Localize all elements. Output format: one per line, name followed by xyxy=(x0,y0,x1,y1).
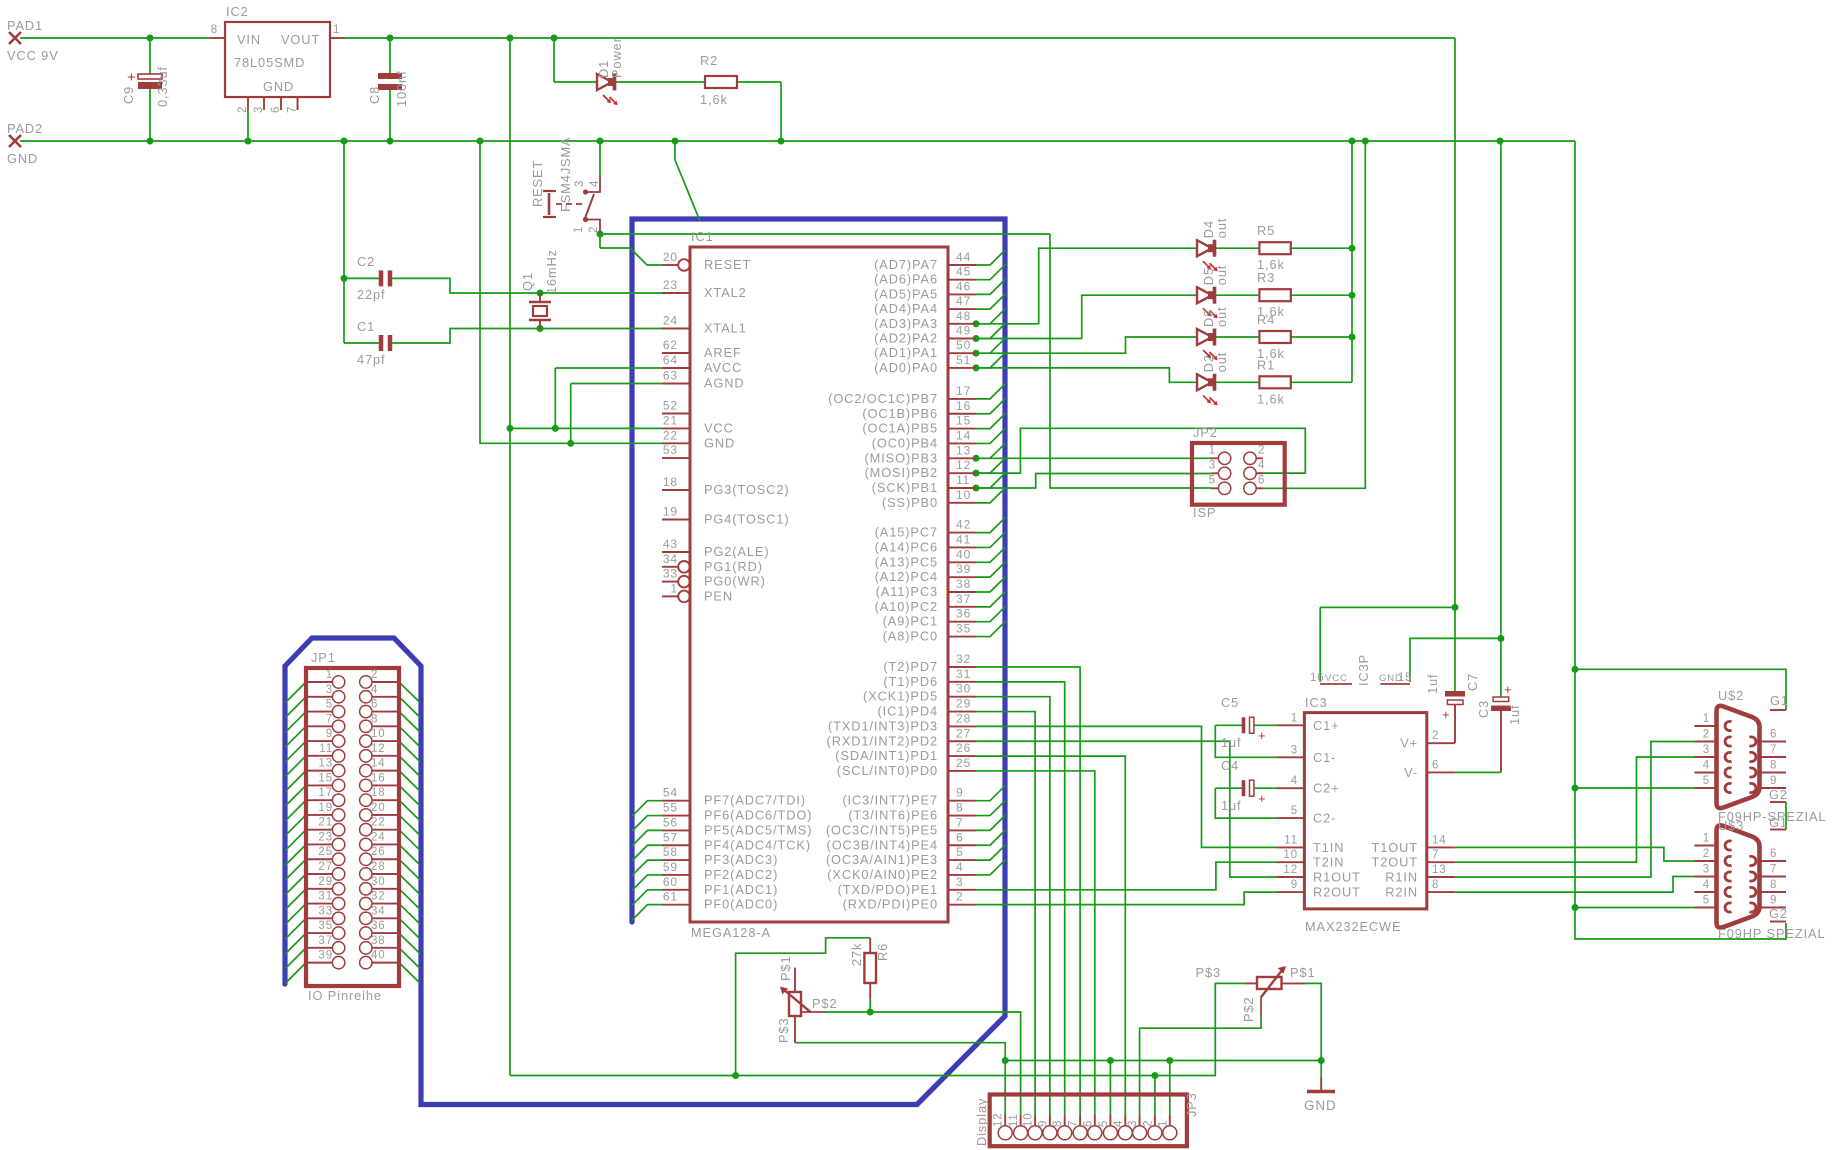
svg-text:6: 6 xyxy=(1770,729,1777,741)
svg-text:MAX232ECWE: MAX232ECWE xyxy=(1305,919,1401,934)
svg-text:Power: Power xyxy=(609,37,624,78)
svg-text:13: 13 xyxy=(956,443,971,457)
svg-text:GND: GND xyxy=(7,151,38,166)
svg-text:P$2: P$2 xyxy=(812,996,837,1011)
svg-text:(AD5)PA5: (AD5)PA5 xyxy=(874,286,938,301)
svg-text:G1: G1 xyxy=(1770,693,1789,708)
svg-text:6: 6 xyxy=(1432,759,1439,771)
svg-text:34: 34 xyxy=(371,905,386,917)
svg-text:15: 15 xyxy=(318,772,333,784)
svg-text:(MISO)PB3: (MISO)PB3 xyxy=(864,450,938,465)
svg-text:21: 21 xyxy=(663,413,678,427)
svg-text:(SCK)PB1: (SCK)PB1 xyxy=(872,480,938,495)
svg-text:GND: GND xyxy=(263,79,294,94)
svg-text:(SS)PB0: (SS)PB0 xyxy=(882,495,938,510)
svg-text:PF1(ADC1): PF1(ADC1) xyxy=(704,882,778,897)
svg-text:4: 4 xyxy=(1703,879,1710,891)
svg-text:(XCK1)PD5: (XCK1)PD5 xyxy=(863,689,938,704)
svg-text:C3: C3 xyxy=(1476,700,1491,718)
svg-text:7: 7 xyxy=(287,106,299,113)
svg-text:41: 41 xyxy=(956,532,971,546)
svg-text:(A13)PC5: (A13)PC5 xyxy=(875,554,938,569)
svg-text:(XCK0/AIN0)PE2: (XCK0/AIN0)PE2 xyxy=(827,867,938,882)
svg-text:T1OUT: T1OUT xyxy=(1372,840,1418,855)
svg-text:3: 3 xyxy=(1291,744,1298,756)
svg-text:4: 4 xyxy=(371,684,378,696)
svg-text:T1IN: T1IN xyxy=(1313,840,1344,855)
svg-text:21: 21 xyxy=(318,817,333,829)
svg-text:(OC1B)PB6: (OC1B)PB6 xyxy=(862,406,938,421)
svg-text:IC3: IC3 xyxy=(1305,695,1328,710)
svg-text:46: 46 xyxy=(956,279,971,293)
svg-text:38: 38 xyxy=(371,935,386,947)
svg-text:14: 14 xyxy=(956,428,971,442)
svg-text:IC3P: IC3P xyxy=(1356,654,1371,686)
svg-text:16: 16 xyxy=(1310,672,1325,684)
svg-text:37: 37 xyxy=(318,935,333,947)
svg-text:4: 4 xyxy=(589,180,601,187)
svg-text:(TXD/PDO)PE1: (TXD/PDO)PE1 xyxy=(838,882,938,897)
svg-text:10: 10 xyxy=(1023,1112,1035,1127)
svg-text:28: 28 xyxy=(371,861,386,873)
svg-text:32: 32 xyxy=(371,891,386,903)
svg-text:8: 8 xyxy=(1770,760,1777,772)
svg-text:(AD0)PA0: (AD0)PA0 xyxy=(874,360,938,375)
svg-text:17: 17 xyxy=(956,384,971,398)
svg-text:R2IN: R2IN xyxy=(1385,885,1418,900)
svg-text:18: 18 xyxy=(663,475,678,489)
svg-text:50: 50 xyxy=(956,338,971,352)
svg-text:25: 25 xyxy=(956,756,971,770)
svg-text:2: 2 xyxy=(237,106,249,113)
svg-text:1uf: 1uf xyxy=(1507,705,1522,726)
svg-text:(AD3)PA3: (AD3)PA3 xyxy=(874,316,938,331)
svg-text:24: 24 xyxy=(371,831,386,843)
svg-text:R1IN: R1IN xyxy=(1385,870,1418,885)
svg-text:C4: C4 xyxy=(1221,758,1239,773)
svg-text:9: 9 xyxy=(1770,775,1777,787)
svg-text:24: 24 xyxy=(663,314,678,328)
svg-text:12: 12 xyxy=(956,458,971,472)
svg-text:RESET: RESET xyxy=(704,257,751,272)
svg-text:PG4(TOSC1): PG4(TOSC1) xyxy=(704,512,790,527)
svg-text:XTAL2: XTAL2 xyxy=(704,285,747,300)
svg-text:1: 1 xyxy=(670,581,678,595)
svg-text:5: 5 xyxy=(1209,474,1216,486)
svg-text:C7: C7 xyxy=(1465,673,1480,691)
svg-text:out: out xyxy=(1214,307,1229,328)
svg-text:49: 49 xyxy=(956,324,971,338)
svg-text:C1-: C1- xyxy=(1313,750,1336,765)
svg-text:7: 7 xyxy=(1432,849,1439,861)
svg-text:P$1: P$1 xyxy=(778,956,793,981)
svg-text:1,6k: 1,6k xyxy=(700,92,728,107)
svg-text:59: 59 xyxy=(663,860,678,874)
svg-text:(OC2/OC1C)PB7: (OC2/OC1C)PB7 xyxy=(828,391,938,406)
svg-text:(RXD1/INT2)PD2: (RXD1/INT2)PD2 xyxy=(827,733,938,748)
svg-text:78L05SMD: 78L05SMD xyxy=(234,55,305,70)
svg-text:PF0(ADC0): PF0(ADC0) xyxy=(704,897,778,912)
svg-text:6: 6 xyxy=(1082,1120,1094,1127)
svg-text:5: 5 xyxy=(1291,805,1298,817)
svg-text:11: 11 xyxy=(319,743,333,755)
svg-text:10: 10 xyxy=(371,728,386,740)
svg-text:U$2: U$2 xyxy=(1718,688,1744,703)
svg-text:31: 31 xyxy=(956,667,971,681)
svg-text:(SDA/INT1)PD1: (SDA/INT1)PD1 xyxy=(835,748,938,763)
svg-text:1uf: 1uf xyxy=(1425,674,1440,695)
svg-text:2: 2 xyxy=(588,226,600,233)
svg-text:8: 8 xyxy=(211,24,218,36)
svg-text:VIN: VIN xyxy=(237,32,261,47)
svg-text:1: 1 xyxy=(1291,712,1298,724)
svg-text:15: 15 xyxy=(956,414,971,428)
svg-text:AREF: AREF xyxy=(704,345,742,360)
svg-text:2: 2 xyxy=(1142,1120,1154,1127)
svg-text:PF3(ADC3): PF3(ADC3) xyxy=(704,852,778,867)
svg-text:25: 25 xyxy=(318,846,333,858)
svg-text:IO Pinreihe: IO Pinreihe xyxy=(308,988,382,1003)
svg-text:PF4(ADC4/TCK): PF4(ADC4/TCK) xyxy=(704,837,811,852)
svg-text:P$2: P$2 xyxy=(1241,997,1256,1022)
svg-text:(IC3/INT7)PE7: (IC3/INT7)PE7 xyxy=(842,793,938,808)
svg-text:XTAL1: XTAL1 xyxy=(704,321,747,336)
svg-text:U$3: U$3 xyxy=(1718,818,1744,833)
svg-text:8: 8 xyxy=(1052,1120,1064,1127)
svg-text:JP1: JP1 xyxy=(311,650,336,665)
svg-text:27: 27 xyxy=(318,861,333,873)
svg-text:1,6k: 1,6k xyxy=(1257,391,1285,406)
svg-text:31: 31 xyxy=(318,891,333,903)
svg-text:22pf: 22pf xyxy=(357,287,386,302)
svg-text:16: 16 xyxy=(371,772,386,784)
svg-text:(T3/INT6)PE6: (T3/INT6)PE6 xyxy=(848,808,938,823)
svg-text:+: + xyxy=(1258,728,1267,743)
svg-text:9: 9 xyxy=(1291,879,1298,891)
svg-text:9: 9 xyxy=(326,728,333,740)
svg-text:61: 61 xyxy=(663,890,678,904)
svg-text:R2OUT: R2OUT xyxy=(1313,885,1361,900)
svg-text:(TXD1/INT3)PD3: (TXD1/INT3)PD3 xyxy=(828,718,938,733)
svg-text:62: 62 xyxy=(663,338,678,352)
svg-text:39: 39 xyxy=(318,950,333,962)
svg-text:5: 5 xyxy=(956,845,964,859)
svg-text:11: 11 xyxy=(1008,1113,1020,1127)
svg-text:(AD4)PA4: (AD4)PA4 xyxy=(874,301,938,316)
svg-text:20: 20 xyxy=(371,802,386,814)
svg-text:R3: R3 xyxy=(1257,270,1275,285)
svg-text:40: 40 xyxy=(371,950,386,962)
svg-text:PG3(TOSC2): PG3(TOSC2) xyxy=(704,482,790,497)
svg-text:P$1: P$1 xyxy=(1290,965,1315,980)
svg-text:(IC1)PD4: (IC1)PD4 xyxy=(877,704,938,719)
svg-text:3: 3 xyxy=(253,106,265,113)
svg-text:(A8)PC0: (A8)PC0 xyxy=(883,629,938,644)
svg-text:out: out xyxy=(1214,352,1229,373)
svg-text:(AD2)PA2: (AD2)PA2 xyxy=(874,331,938,346)
svg-text:out: out xyxy=(1214,265,1229,286)
svg-text:38: 38 xyxy=(956,577,971,591)
svg-text:39: 39 xyxy=(956,562,971,576)
svg-text:PEN: PEN xyxy=(704,588,733,603)
svg-text:(OC0)PB4: (OC0)PB4 xyxy=(872,435,938,450)
svg-text:4: 4 xyxy=(956,860,964,874)
svg-text:10: 10 xyxy=(1283,849,1298,861)
svg-text:3: 3 xyxy=(1703,744,1710,756)
svg-text:GND: GND xyxy=(704,435,735,450)
svg-text:1: 1 xyxy=(333,24,340,36)
svg-text:9: 9 xyxy=(956,786,964,800)
svg-text:8: 8 xyxy=(371,713,378,725)
svg-text:2: 2 xyxy=(1258,444,1265,456)
svg-text:FSM4JSMA: FSM4JSMA xyxy=(558,137,573,212)
svg-text:16: 16 xyxy=(956,399,971,413)
svg-text:(AD1)PA1: (AD1)PA1 xyxy=(874,345,938,360)
svg-text:7: 7 xyxy=(326,713,333,725)
svg-text:28: 28 xyxy=(956,711,971,725)
svg-text:3: 3 xyxy=(574,180,586,187)
svg-text:8: 8 xyxy=(956,801,964,815)
svg-text:5: 5 xyxy=(1703,895,1710,907)
svg-text:PAD1: PAD1 xyxy=(7,18,43,33)
svg-text:C8: C8 xyxy=(367,86,382,104)
svg-text:G1: G1 xyxy=(1769,815,1788,830)
svg-text:(T2)PD7: (T2)PD7 xyxy=(883,659,938,674)
svg-text:56: 56 xyxy=(663,815,678,829)
svg-text:1: 1 xyxy=(1703,833,1710,845)
svg-text:C1: C1 xyxy=(357,319,375,334)
svg-text:IC1: IC1 xyxy=(691,229,714,244)
svg-text:IC2: IC2 xyxy=(226,4,249,19)
svg-text:13: 13 xyxy=(318,758,333,770)
svg-text:C2+: C2+ xyxy=(1313,781,1340,796)
svg-text:Q1: Q1 xyxy=(520,272,535,291)
svg-text:MEGA128-A: MEGA128-A xyxy=(691,925,771,940)
svg-text:8: 8 xyxy=(1432,879,1439,891)
svg-text:45: 45 xyxy=(956,265,971,279)
svg-text:RESET: RESET xyxy=(530,160,545,207)
svg-text:4: 4 xyxy=(1703,760,1710,772)
svg-text:22: 22 xyxy=(663,428,678,442)
svg-text:2: 2 xyxy=(371,669,378,681)
svg-text:(A14)PC6: (A14)PC6 xyxy=(875,539,938,554)
svg-text:29: 29 xyxy=(956,697,971,711)
svg-text:29: 29 xyxy=(318,876,333,888)
svg-text:34: 34 xyxy=(663,552,678,566)
svg-text:47: 47 xyxy=(956,294,971,308)
svg-text:AVCC: AVCC xyxy=(704,360,742,375)
svg-text:1: 1 xyxy=(1157,1120,1169,1127)
svg-text:7: 7 xyxy=(1770,744,1777,756)
svg-text:18: 18 xyxy=(371,787,386,799)
svg-text:7: 7 xyxy=(1770,864,1777,876)
svg-text:19: 19 xyxy=(663,505,678,519)
svg-text:3: 3 xyxy=(326,684,333,696)
svg-text:4: 4 xyxy=(1258,459,1265,471)
svg-text:7: 7 xyxy=(956,815,964,829)
svg-text:11: 11 xyxy=(1284,834,1298,846)
svg-text:VOUT: VOUT xyxy=(281,32,320,47)
svg-text:40: 40 xyxy=(956,547,971,561)
svg-text:R4: R4 xyxy=(1257,312,1275,327)
svg-text:36: 36 xyxy=(371,920,386,932)
svg-text:54: 54 xyxy=(663,786,678,800)
svg-text:(A11)PC3: (A11)PC3 xyxy=(876,584,938,599)
svg-text:19: 19 xyxy=(318,802,333,814)
svg-text:5: 5 xyxy=(326,699,333,711)
svg-text:V-: V- xyxy=(1404,765,1418,780)
svg-text:22: 22 xyxy=(371,817,386,829)
svg-text:(A15)PC7: (A15)PC7 xyxy=(875,525,938,540)
svg-text:100nf: 100nf xyxy=(394,70,409,107)
svg-text:(A12)PC4: (A12)PC4 xyxy=(875,569,938,584)
svg-text:47pf: 47pf xyxy=(357,352,386,367)
svg-text:+: + xyxy=(1258,791,1267,806)
svg-text:53: 53 xyxy=(663,443,678,457)
svg-text:1uf: 1uf xyxy=(1221,735,1242,750)
svg-text:out: out xyxy=(1214,218,1229,239)
svg-text:30: 30 xyxy=(956,682,971,696)
svg-text:(A9)PC1: (A9)PC1 xyxy=(883,614,938,629)
svg-text:27: 27 xyxy=(956,726,971,740)
svg-text:6: 6 xyxy=(371,699,378,711)
svg-text:1: 1 xyxy=(1703,713,1710,725)
svg-text:32: 32 xyxy=(956,652,971,666)
svg-text:9: 9 xyxy=(1770,895,1777,907)
svg-text:9: 9 xyxy=(1037,1120,1049,1127)
svg-text:55: 55 xyxy=(663,801,678,815)
svg-text:2: 2 xyxy=(1703,729,1710,741)
svg-text:F09HP SPEZIAL: F09HP SPEZIAL xyxy=(1718,926,1825,941)
svg-text:(AD6)PA6: (AD6)PA6 xyxy=(874,272,938,287)
svg-text:12: 12 xyxy=(993,1112,1005,1127)
svg-text:2: 2 xyxy=(1432,730,1439,742)
svg-text:PF7(ADC7/TDI): PF7(ADC7/TDI) xyxy=(704,793,806,808)
svg-text:VCC: VCC xyxy=(704,420,734,435)
svg-text:AGND: AGND xyxy=(704,376,745,391)
svg-text:26: 26 xyxy=(956,741,971,755)
svg-text:(OC3B/INT4)PE4: (OC3B/INT4)PE4 xyxy=(827,837,938,852)
svg-text:T2OUT: T2OUT xyxy=(1372,855,1418,870)
svg-text:1: 1 xyxy=(573,226,585,233)
svg-text:8: 8 xyxy=(1770,879,1777,891)
svg-text:2: 2 xyxy=(1703,848,1710,860)
svg-text:52: 52 xyxy=(663,399,678,413)
svg-text:4: 4 xyxy=(1113,1120,1125,1127)
svg-text:16mHz: 16mHz xyxy=(544,249,559,294)
svg-text:27k: 27k xyxy=(849,943,864,966)
svg-text:42: 42 xyxy=(956,518,971,532)
svg-text:T2IN: T2IN xyxy=(1313,855,1344,870)
svg-text:C2: C2 xyxy=(357,254,375,269)
svg-text:G2: G2 xyxy=(1769,787,1788,802)
svg-text:36: 36 xyxy=(956,607,971,621)
svg-text:60: 60 xyxy=(663,875,678,889)
svg-text:(SCL/INT0)PD0: (SCL/INT0)PD0 xyxy=(837,763,938,778)
svg-text:64: 64 xyxy=(663,353,678,367)
svg-text:6: 6 xyxy=(956,830,964,844)
svg-text:(MOSI)PB2: (MOSI)PB2 xyxy=(864,465,938,480)
svg-text:1: 1 xyxy=(1209,444,1216,456)
svg-text:33: 33 xyxy=(318,905,333,917)
svg-text:35: 35 xyxy=(318,920,333,932)
svg-text:C1+: C1+ xyxy=(1313,718,1340,733)
svg-text:1: 1 xyxy=(326,669,333,681)
svg-text:43: 43 xyxy=(663,537,678,551)
svg-text:R1: R1 xyxy=(1257,357,1275,372)
svg-text:20: 20 xyxy=(663,250,678,264)
svg-text:11: 11 xyxy=(956,473,970,487)
svg-text:(OC3C/INT5)PE5: (OC3C/INT5)PE5 xyxy=(826,822,938,837)
svg-text:48: 48 xyxy=(956,309,971,323)
svg-text:R6: R6 xyxy=(875,943,890,961)
svg-text:V+: V+ xyxy=(1400,736,1418,751)
svg-text:23: 23 xyxy=(663,278,678,292)
svg-text:3: 3 xyxy=(1127,1120,1139,1127)
svg-text:51: 51 xyxy=(956,353,971,367)
svg-text:12: 12 xyxy=(1283,864,1298,876)
svg-text:14: 14 xyxy=(1432,834,1447,846)
svg-text:6: 6 xyxy=(270,106,282,113)
svg-text:PF5(ADC5/TMS): PF5(ADC5/TMS) xyxy=(704,822,812,837)
svg-text:1uf: 1uf xyxy=(1221,798,1242,813)
svg-text:63: 63 xyxy=(663,369,678,383)
svg-text:37: 37 xyxy=(956,592,971,606)
svg-text:12: 12 xyxy=(371,743,386,755)
svg-text:0,33uf: 0,33uf xyxy=(155,66,170,107)
svg-text:JP2: JP2 xyxy=(1193,425,1218,440)
svg-text:44: 44 xyxy=(956,250,971,264)
svg-text:C2-: C2- xyxy=(1313,811,1336,826)
svg-text:30: 30 xyxy=(371,876,386,888)
svg-text:P$3: P$3 xyxy=(776,1018,791,1043)
svg-text:2: 2 xyxy=(956,890,964,904)
svg-text:5: 5 xyxy=(1098,1120,1110,1127)
svg-text:R5: R5 xyxy=(1257,223,1275,238)
svg-text:4: 4 xyxy=(1291,775,1298,787)
svg-text:R1OUT: R1OUT xyxy=(1313,870,1361,885)
svg-text:VCC: VCC xyxy=(1325,673,1348,684)
svg-text:C9: C9 xyxy=(121,86,136,104)
svg-text:ISP: ISP xyxy=(1193,505,1216,520)
svg-text:+: + xyxy=(1442,707,1451,722)
svg-text:35: 35 xyxy=(956,622,971,636)
svg-text:(OC3A/AIN1)PE3: (OC3A/AIN1)PE3 xyxy=(826,852,938,867)
svg-text:PG1(RD): PG1(RD) xyxy=(704,559,763,574)
svg-text:C5: C5 xyxy=(1221,695,1239,710)
svg-text:23: 23 xyxy=(318,831,333,843)
svg-text:PG2(ALE): PG2(ALE) xyxy=(704,544,770,559)
svg-text:6: 6 xyxy=(1258,474,1265,486)
svg-text:5: 5 xyxy=(1703,775,1710,787)
svg-text:3: 3 xyxy=(1703,864,1710,876)
svg-text:3: 3 xyxy=(1209,459,1216,471)
svg-text:26: 26 xyxy=(371,846,386,858)
svg-text:7: 7 xyxy=(1068,1120,1080,1127)
svg-text:13: 13 xyxy=(1432,864,1447,876)
svg-text:+: + xyxy=(127,69,137,86)
svg-text:(T1)PD6: (T1)PD6 xyxy=(883,674,938,689)
svg-text:R2: R2 xyxy=(700,53,718,68)
svg-text:10: 10 xyxy=(956,488,971,502)
svg-text:PG0(WR): PG0(WR) xyxy=(704,574,766,589)
svg-text:P$3: P$3 xyxy=(1196,965,1221,980)
svg-text:33: 33 xyxy=(663,567,678,581)
svg-text:6: 6 xyxy=(1770,848,1777,860)
svg-text:PF2(ADC2): PF2(ADC2) xyxy=(704,867,778,882)
svg-text:57: 57 xyxy=(663,830,678,844)
svg-text:PAD2: PAD2 xyxy=(7,121,43,136)
